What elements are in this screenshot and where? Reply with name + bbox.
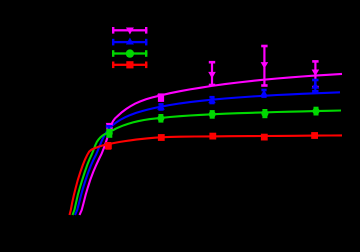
legend entry blue: up-triangle marker <box>126 38 134 45</box>
magenta point 4 error bar <box>263 46 265 86</box>
red point 3 marker <box>209 133 216 140</box>
blue point 3 error bar <box>211 97 213 103</box>
magenta point 3 marker <box>208 72 216 79</box>
red point 5 marker <box>311 132 318 139</box>
green point 4 error bar <box>264 110 266 117</box>
magenta point 2 error bar <box>158 93 164 102</box>
magenta point 1 marker <box>106 123 114 130</box>
magenta fit curve <box>80 74 343 215</box>
red fit curve <box>70 135 343 215</box>
legend entry green: line with caps <box>112 52 147 54</box>
magenta point 1 error bar <box>108 124 110 128</box>
red point 1 marker <box>105 142 112 149</box>
red point 1 error bar <box>107 143 109 148</box>
legend entry green: circle marker <box>126 49 134 57</box>
blue fit curve <box>75 92 340 215</box>
magenta point 4 marker <box>261 62 269 69</box>
blue point 2 error bar <box>160 104 162 109</box>
green point 5 error bar <box>315 108 317 114</box>
blue point 5 error bar <box>314 80 316 91</box>
legend entry red: line with caps <box>112 64 147 66</box>
green point 1 error bar <box>108 130 110 136</box>
blue point 2 marker <box>157 103 165 110</box>
blue point 4 error bar <box>263 90 265 97</box>
legend entry magenta: down-triangle marker <box>126 28 134 35</box>
magenta point 5 marker <box>312 70 320 77</box>
blue point 5 marker <box>312 82 320 89</box>
blue point 1 marker <box>105 126 113 133</box>
green point 1 marker <box>106 130 113 137</box>
blue point 1 error bar <box>108 126 110 132</box>
red point 2 marker <box>158 134 165 141</box>
green point 2 marker <box>157 115 164 122</box>
green point 4 marker <box>261 110 268 117</box>
green point 5 marker <box>313 108 320 115</box>
green point 3 error bar <box>211 111 213 117</box>
legend entry red: square marker <box>126 61 133 68</box>
red point 4 marker <box>261 134 268 141</box>
legend entry blue: line with caps <box>112 41 147 43</box>
green point 3 marker <box>209 111 216 118</box>
magenta point 3 error bar <box>211 62 213 85</box>
magenta point 2 marker <box>157 94 165 101</box>
legend entry magenta: line with caps <box>112 29 147 31</box>
green fit curve <box>73 111 342 216</box>
magenta point 5 error bar <box>314 61 316 87</box>
green point 2 error bar <box>160 115 162 121</box>
blue point 3 marker <box>208 97 216 104</box>
blue point 4 marker <box>260 90 268 97</box>
